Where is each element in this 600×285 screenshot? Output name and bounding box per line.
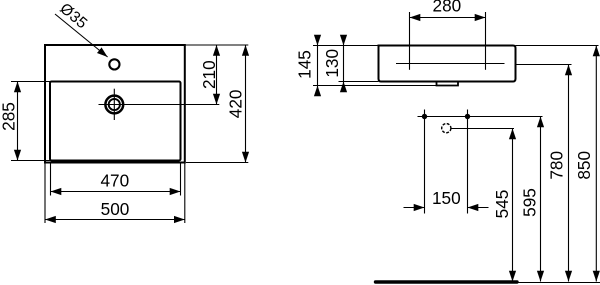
svg-text:285: 285 (0, 102, 18, 131)
svg-text:210: 210 (199, 60, 219, 89)
svg-text:420: 420 (226, 90, 246, 119)
svg-text:595: 595 (519, 188, 539, 217)
svg-text:545: 545 (492, 190, 512, 219)
svg-text:145: 145 (294, 50, 314, 79)
svg-text:280: 280 (433, 0, 462, 16)
svg-text:780: 780 (546, 151, 566, 180)
svg-text:470: 470 (100, 171, 129, 191)
svg-text:130: 130 (322, 49, 342, 78)
svg-text:150: 150 (432, 188, 461, 208)
svg-text:500: 500 (101, 199, 130, 219)
svg-text:850: 850 (574, 151, 594, 180)
